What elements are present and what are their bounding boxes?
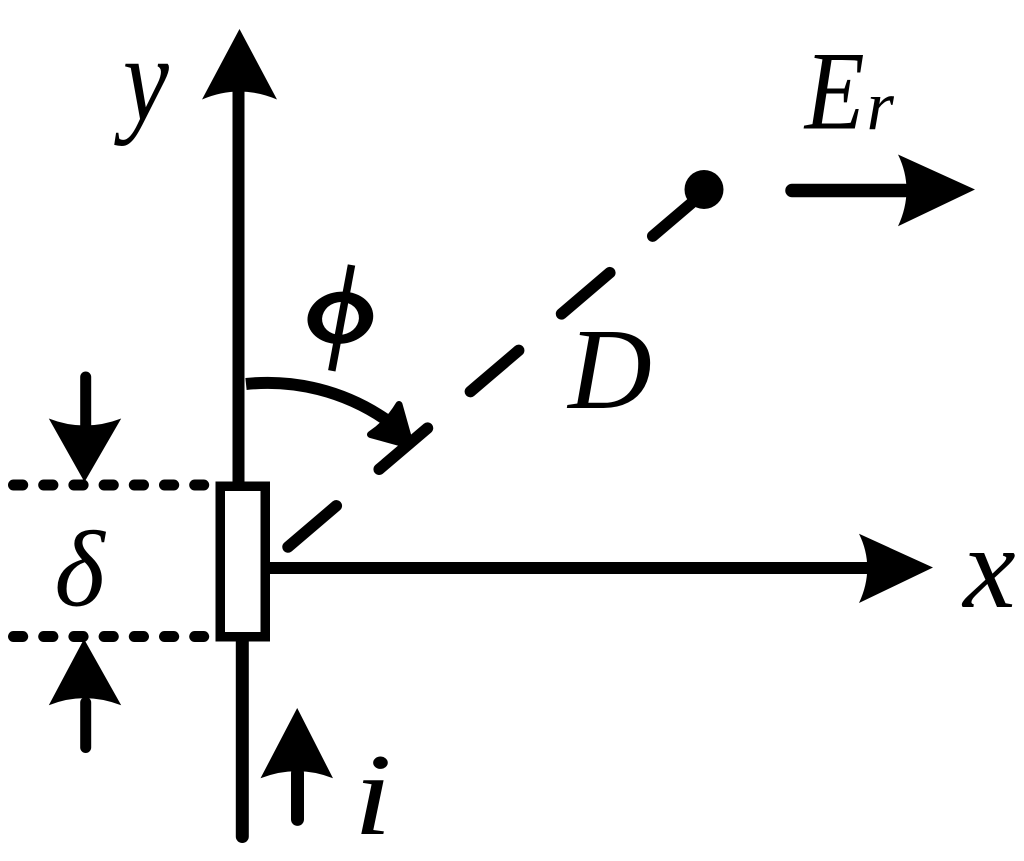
lower feed wire (236, 641, 249, 837)
dashed distance line D to field point (288, 195, 701, 547)
delta down arrow stem (80, 377, 91, 429)
angle arc phi (246, 383, 385, 419)
svg-text:i: i (354, 730, 392, 860)
current arrow stem (291, 773, 304, 819)
svg-text:r: r (867, 68, 895, 145)
delta up arrow stem (80, 703, 91, 748)
delta up arrowhead (49, 639, 121, 705)
delta bottom dashed line (14, 631, 204, 642)
svg-text:x: x (961, 502, 1015, 633)
y-axis line (233, 88, 245, 482)
dipole element rectangle (220, 486, 265, 637)
svg-text:E: E (803, 29, 865, 154)
current arrowhead (261, 708, 334, 778)
x-axis arrowhead (859, 534, 933, 603)
E_r arrow stem (792, 184, 905, 198)
angle arc arrowhead (371, 405, 411, 446)
field point dot (685, 170, 724, 209)
x-axis line (268, 562, 880, 574)
delta down arrowhead (49, 419, 121, 483)
E_r arrowhead (898, 155, 975, 227)
delta top dashed line (14, 480, 204, 491)
svg-text:y: y (114, 12, 170, 147)
svg-text:D: D (566, 306, 652, 434)
y-axis arrowhead (202, 29, 277, 100)
svg-text:δ: δ (54, 511, 106, 630)
label phi (slashed circle, drawn) (304, 265, 377, 371)
